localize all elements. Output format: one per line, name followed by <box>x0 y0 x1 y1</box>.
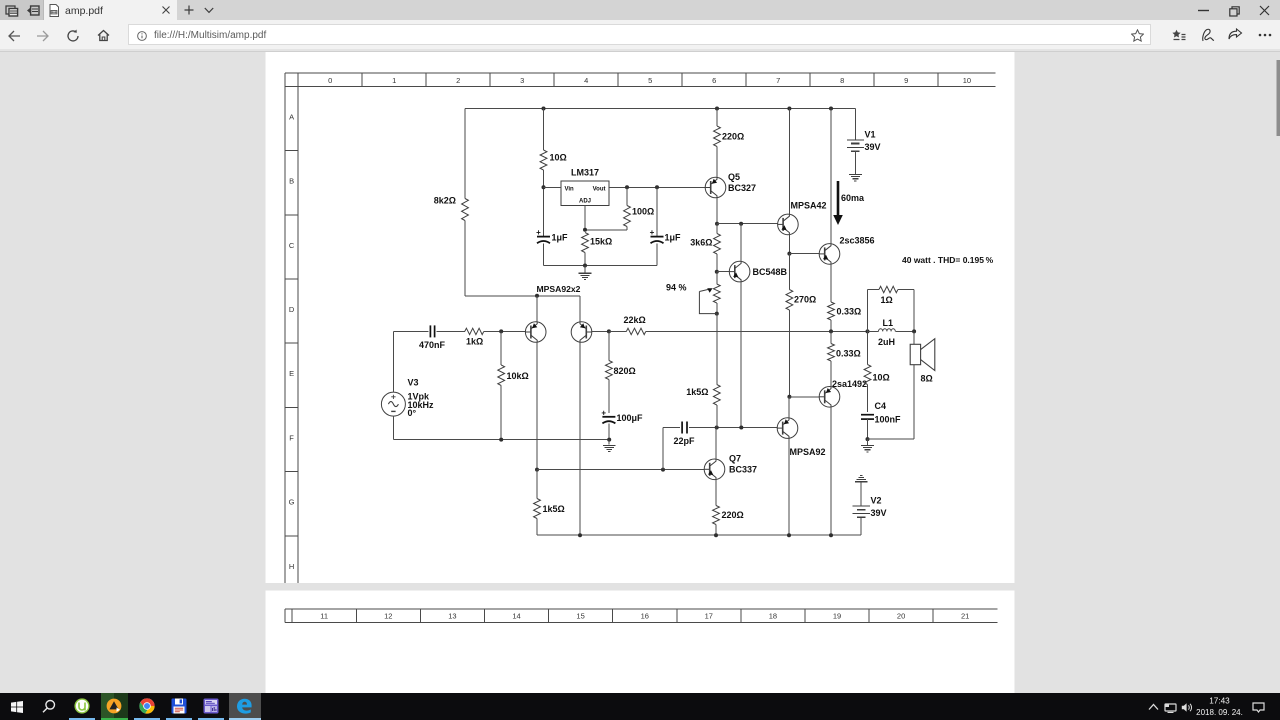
clock <box>1190 693 1250 720</box>
svg-text:C4: C4 <box>875 401 887 411</box>
svg-text:15kΩ: 15kΩ <box>590 237 612 247</box>
svg-text:2uH: 2uH <box>878 337 895 347</box>
svg-text:6: 6 <box>712 76 716 85</box>
svg-text:4: 4 <box>584 76 588 85</box>
wire 2sa1492 base <box>789 396 819 398</box>
refresh <box>66 29 80 43</box>
transistor MPSA42 (npn cascode) <box>778 214 799 235</box>
svg-text:11: 11 <box>320 612 328 621</box>
wire LM317 local ground rail <box>544 265 658 267</box>
svg-text:60ma: 60ma <box>841 193 865 203</box>
svg-text:D: D <box>289 305 295 314</box>
ground (zobel) <box>867 439 869 445</box>
ground (V2, inverted) <box>855 481 868 483</box>
svg-text:22kΩ: 22kΩ <box>624 315 646 325</box>
wire top +39V rail <box>465 108 855 110</box>
wire 2sa1492 collector to neg rail <box>830 407 832 535</box>
svg-text:220Ω: 220Ω <box>722 510 744 520</box>
wire LM317 Vin lead <box>544 186 562 188</box>
resistor 8k2 (left bias feed) <box>464 109 466 199</box>
svg-text:H: H <box>289 562 294 571</box>
capacitor 100uF feedback (polarized) <box>602 416 615 418</box>
scrollbar thumb <box>1277 60 1280 136</box>
wire diff-pair emitter rail <box>465 295 580 297</box>
chrome <box>134 718 160 720</box>
potentiometer 94% (bias trim) <box>716 272 718 284</box>
svg-text:Q7: Q7 <box>729 454 741 464</box>
svg-text:1Ω: 1Ω <box>881 295 893 305</box>
wire 22pF left drop <box>662 428 664 470</box>
svg-text:1kΩ: 1kΩ <box>466 336 483 346</box>
floppy app <box>166 718 192 720</box>
capacitor 1uF (output side, polarized) <box>656 187 658 236</box>
wire V3 bottom <box>392 416 394 440</box>
svg-text:12: 12 <box>384 612 392 621</box>
resistor 10ohm (LM317 input) <box>543 109 545 151</box>
svg-text:MPSA42: MPSA42 <box>791 201 827 211</box>
wire MPSA42 emitter <box>788 235 790 254</box>
tray speaker <box>1181 702 1193 713</box>
svg-text:20: 20 <box>897 612 905 621</box>
chrome bottom divider <box>0 49 1280 52</box>
resistor 0.33 top (emitter ballast) <box>828 302 835 320</box>
resistor 10ohm zobel <box>867 331 869 364</box>
page 2 column ruler 11-21 <box>285 608 997 610</box>
regulator U1 LM317 box <box>561 181 609 206</box>
transistor Q7 BC337 (npn) <box>704 459 725 480</box>
svg-text:B: B <box>289 177 294 186</box>
wire negative rail -39V <box>537 534 861 536</box>
svg-text:19: 19 <box>833 612 841 621</box>
svg-text:V1: V1 <box>865 130 876 140</box>
svg-text:E: E <box>289 369 294 378</box>
ground (LM317 block) <box>584 266 586 273</box>
svg-text:16: 16 <box>641 612 649 621</box>
wire V3 top <box>392 331 394 392</box>
svg-text:BC548B: BC548B <box>753 267 788 277</box>
transistor MPSA92 VAS (pnp) <box>777 418 798 439</box>
inductor L1 2uH <box>868 330 879 332</box>
resistor 0.33 bottom (pnp ballast) <box>830 331 832 343</box>
capacitor 22pF miller <box>663 427 680 429</box>
svg-text:10Ω: 10Ω <box>550 153 567 163</box>
source V3 sine 1Vpk <box>381 392 405 416</box>
back arrow <box>8 30 21 42</box>
tab list v <box>204 7 214 14</box>
svg-text:7: 7 <box>776 76 780 85</box>
resistor 820 feedback <box>608 331 610 360</box>
tab bar <box>0 0 1280 20</box>
wire MPSA42 collector <box>788 109 790 215</box>
resistor 220 (Q7 emitter) <box>715 480 717 506</box>
wire 2sc3856 emitter <box>830 264 832 302</box>
start button <box>11 701 23 713</box>
resistor 22k feedback + output rail <box>609 330 627 332</box>
pdf page 2 <box>266 591 1015 694</box>
wire to BC548B base <box>717 271 730 273</box>
svg-text:Vin: Vin <box>565 187 575 193</box>
pdf page 1 <box>266 52 1015 583</box>
svg-text:MPSA92: MPSA92 <box>790 447 826 457</box>
svg-text:100Ω: 100Ω <box>632 207 654 217</box>
pdf icon <box>48 4 60 17</box>
svg-text:V2: V2 <box>871 496 882 506</box>
svg-text:L1: L1 <box>883 318 894 328</box>
window controls <box>1198 9 1210 12</box>
svg-text:MPSA92x2: MPSA92x2 <box>537 284 581 294</box>
svg-text:18: 18 <box>769 612 777 621</box>
capacitor 470nF input coupling <box>393 330 428 332</box>
svg-text:0.33Ω: 0.33Ω <box>837 307 862 317</box>
ground (input return) <box>608 440 610 445</box>
action center <box>1252 702 1265 713</box>
svg-text:1μF: 1μF <box>665 233 682 243</box>
hub <box>1172 29 1186 42</box>
wire left collector down <box>536 342 538 469</box>
svg-text:270Ω: 270Ω <box>794 295 816 305</box>
transistor pair MPSA92x2 right (pnp mirrored) <box>571 322 592 343</box>
svg-text:0.33Ω: 0.33Ω <box>836 349 861 359</box>
wire right collector down to neg rail <box>579 342 581 535</box>
wire 2sc3856 collector <box>830 109 832 244</box>
svg-text:10Ω: 10Ω <box>873 373 890 383</box>
transistor Q5 BC327 (pnp) <box>705 177 726 198</box>
transistor 2sa1492 (pnp output) <box>819 387 840 408</box>
edge (focused) <box>229 693 261 720</box>
svg-text:10: 10 <box>963 76 971 85</box>
wire to MPSA92 base <box>689 427 777 429</box>
resistor 220 (Q5 collector load) <box>716 109 718 127</box>
svg-text:2018. 09. 24.: 2018. 09. 24. <box>1196 708 1243 717</box>
more dots <box>1258 33 1272 37</box>
svg-text:C: C <box>289 241 295 250</box>
resistor 15k (ADJ to gnd) <box>582 233 589 253</box>
tray chevron <box>1148 703 1159 711</box>
svg-text:+: + <box>536 228 541 237</box>
transistor 2sc3856 (npn output) <box>819 244 840 265</box>
svg-text:A: A <box>289 112 294 121</box>
wire Q5 collector to VAS node <box>716 198 718 224</box>
transistor BC548B (npn vbe multiplier) <box>729 261 750 282</box>
svg-text:8k2Ω: 8k2Ω <box>434 196 456 206</box>
svg-text:100nF: 100nF <box>875 414 902 424</box>
wire bias node to 2sc3856 base <box>789 253 819 255</box>
resistor 1k5 (VAS) <box>713 385 720 406</box>
annotate pen <box>1201 28 1215 43</box>
toolbar row <box>0 20 1280 49</box>
favorites star <box>1131 29 1144 42</box>
tab close x <box>161 5 171 15</box>
wire LM317 Vout to Q5 base <box>609 186 705 188</box>
svg-text:14: 14 <box>512 612 520 621</box>
capacitor C4 100nF <box>861 414 874 416</box>
svg-text:22pF: 22pF <box>674 436 696 446</box>
wire lower signal path to Q7 base <box>537 469 704 471</box>
svg-text:Vout: Vout <box>593 187 606 193</box>
wire to diff pair base <box>484 330 526 332</box>
wire right base to feedback node <box>592 330 609 332</box>
svg-text:G: G <box>289 498 295 507</box>
fwd arrow <box>36 30 49 42</box>
svg-text:3k6Ω: 3k6Ω <box>690 238 712 248</box>
svg-text:8Ω: 8Ω <box>921 373 933 383</box>
wire VAS emitter <box>788 397 790 418</box>
svg-text:F: F <box>289 433 294 442</box>
sheet border frame and column ruler 0-10 <box>285 72 996 74</box>
svg-text:39V: 39V <box>865 142 881 152</box>
new tab + <box>184 5 194 15</box>
wire <box>437 330 465 332</box>
row ruler strip A-H <box>284 73 286 583</box>
wire VAS collector to neg rail <box>788 438 790 535</box>
svg-text:BC327: BC327 <box>728 183 756 193</box>
svg-text:3: 3 <box>520 76 524 85</box>
set-aside tab icons <box>5 5 19 17</box>
svg-text:17: 17 <box>705 612 713 621</box>
svg-text:V3: V3 <box>408 378 419 388</box>
resistor 1k series input <box>465 328 484 334</box>
svg-text:9: 9 <box>904 76 908 85</box>
ground (V1) <box>849 174 862 176</box>
utorrent <box>69 718 95 720</box>
wire output rail <box>646 330 868 332</box>
wire Q7 collector <box>715 428 717 460</box>
battery V2 39V <box>860 517 862 535</box>
battery V1 39V <box>854 109 856 140</box>
svg-text:13: 13 <box>448 612 456 621</box>
svg-text:ADJ: ADJ <box>579 199 591 205</box>
wire BC548B collector <box>740 224 742 262</box>
active tab <box>44 0 177 20</box>
resistor 3k6 <box>716 224 718 234</box>
resistor 270 (bias chain) <box>788 254 790 290</box>
svg-text:Q5: Q5 <box>728 172 740 182</box>
wire zobel/speaker bottom <box>868 365 915 439</box>
svg-text:BC337: BC337 <box>729 465 757 475</box>
svg-text:+: + <box>650 228 655 237</box>
svg-text:1k5Ω: 1k5Ω <box>686 387 708 397</box>
current arrow 60ma <box>837 181 840 216</box>
speaker 8ohm <box>913 331 915 344</box>
svg-text:15: 15 <box>576 612 584 621</box>
svg-text:0°: 0° <box>408 408 417 418</box>
resistor 100ohm (LM317 program) <box>626 187 628 205</box>
mixer app <box>198 718 224 720</box>
svg-text:10kΩ: 10kΩ <box>507 371 529 381</box>
resistor 10k input bias <box>500 331 502 365</box>
svg-text:LM317: LM317 <box>571 168 599 178</box>
svg-text:5: 5 <box>648 76 652 85</box>
wire ground return rail (input) <box>393 439 609 441</box>
node dots on top rail <box>542 107 546 111</box>
svg-text:820Ω: 820Ω <box>614 366 636 376</box>
svg-text:39V: 39V <box>871 508 887 518</box>
aimp (active green) <box>101 693 128 720</box>
svg-text:8: 8 <box>840 76 844 85</box>
svg-text:1: 1 <box>392 76 396 85</box>
svg-text:2sa1492: 2sa1492 <box>832 379 867 389</box>
svg-text:0: 0 <box>328 76 332 85</box>
search <box>42 699 56 713</box>
svg-text:17:43: 17:43 <box>1209 697 1230 706</box>
share <box>1228 28 1243 42</box>
capacitor 1uF (input side, polarized) <box>537 236 550 238</box>
home <box>97 29 110 42</box>
svg-text:100μF: 100μF <box>617 413 644 423</box>
tray network <box>1164 703 1177 713</box>
resistor 1k5 (left collector load) <box>534 499 541 519</box>
svg-text:40 watt . THD= 0.195 %: 40 watt . THD= 0.195 % <box>902 255 994 265</box>
svg-text:220Ω: 220Ω <box>722 132 744 142</box>
svg-text:21: 21 <box>961 612 969 621</box>
svg-text:470nF: 470nF <box>419 340 446 350</box>
wire LM317 ADJ pin <box>584 206 586 230</box>
svg-text:+: + <box>601 409 606 418</box>
resistor 1ohm (zobel loop top) <box>868 290 880 332</box>
svg-text:1k5Ω: 1k5Ω <box>543 504 565 514</box>
svg-text:94 %: 94 % <box>666 283 687 293</box>
address bar <box>128 24 1151 45</box>
svg-text:2sc3856: 2sc3856 <box>840 236 875 246</box>
wire BC548B emitter down <box>740 282 742 428</box>
svg-text:2: 2 <box>456 76 460 85</box>
svg-text:1μF: 1μF <box>552 233 569 243</box>
